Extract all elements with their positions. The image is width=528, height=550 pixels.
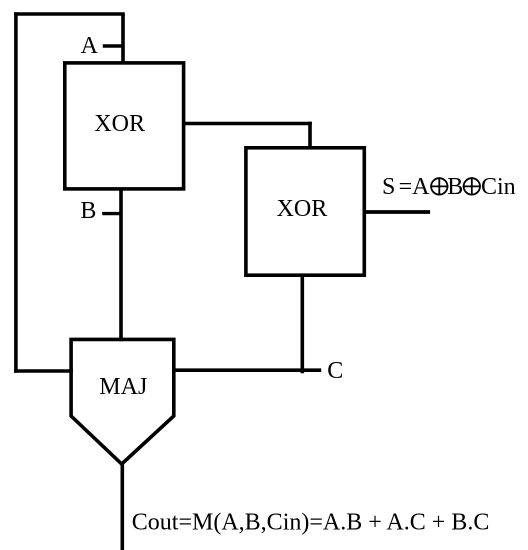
wire: B label tick [102, 212, 121, 215]
wire: A label tick [103, 44, 123, 47]
wire: C input line right of MAJ [174, 368, 321, 372]
wire: left vertical rail (input A to MAJ) [14, 12, 18, 373]
wire: drop into XOR U2 top [308, 122, 312, 148]
node A label [81, 33, 99, 59]
svg-text:B: B [80, 198, 96, 224]
xor symbol circled-plus 1 [430, 177, 448, 195]
wire: A drop into XOR U1 top [121, 14, 125, 63]
svg-text:XOR: XOR [277, 196, 328, 222]
XOR gate U1 box [65, 63, 184, 189]
node B label [80, 198, 96, 224]
output Cout label [132, 510, 490, 536]
svg-text:Cin: Cin [481, 174, 516, 200]
MAJ gate U3 label [99, 374, 147, 400]
svg-text:XOR: XOR [94, 111, 145, 137]
svg-text:A: A [81, 33, 99, 59]
wire: top rail from left rail to A drop [14, 12, 125, 16]
wire: S output from XOR U2 [364, 210, 430, 214]
svg-text:B: B [447, 174, 463, 200]
output S label text part 2 [447, 174, 463, 200]
svg-text:MAJ: MAJ [99, 374, 147, 400]
xor symbol circled-plus 2 [463, 177, 481, 195]
svg-text:Cout=M(A,B,Cin)=A.B + A.C + B.: Cout=M(A,B,Cin)=A.B + A.C + B.C [132, 510, 490, 536]
MAJ gate U3 pentagon [71, 339, 174, 464]
svg-text:C: C [327, 358, 343, 384]
wire: Cout output drop from MAJ point [121, 462, 125, 550]
wire: XOR U2 bottom drop to C line [300, 275, 304, 373]
wire: B vertical from XOR U1 bottom to MAJ top [119, 189, 123, 341]
wire: XOR U1 output horizontal [184, 122, 312, 126]
XOR gate U1 label [94, 111, 145, 137]
output S label text part 1 [382, 174, 430, 200]
svg-text:S: S [382, 174, 395, 200]
wire: left rail into MAJ left input [14, 369, 73, 373]
svg-text:=A: =A [399, 174, 431, 200]
XOR gate U2 label [277, 196, 328, 222]
output S label text part 3 [481, 174, 516, 200]
node C label [327, 358, 343, 384]
XOR gate U2 box [246, 148, 364, 275]
